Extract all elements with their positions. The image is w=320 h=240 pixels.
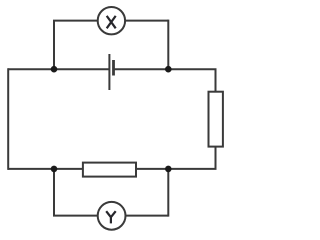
wire	[167, 169, 169, 217]
wire	[8, 68, 109, 70]
wire	[7, 68, 9, 170]
wire	[114, 69, 216, 91]
wire	[167, 20, 169, 70]
cell (battery)	[109, 54, 113, 90]
wire	[126, 215, 169, 217]
wire	[53, 21, 55, 70]
junction dot	[165, 166, 172, 173]
wire	[53, 169, 55, 216]
wire	[137, 147, 216, 169]
junction dot	[51, 66, 58, 73]
wire	[53, 20, 98, 22]
wire	[8, 168, 83, 170]
wire	[125, 20, 168, 22]
meter Y	[98, 202, 126, 230]
resistor (right vertical)	[209, 92, 223, 147]
junction dot	[51, 166, 58, 173]
wire	[53, 215, 98, 217]
resistor (bottom horizontal)	[83, 163, 136, 177]
meter X	[98, 7, 125, 34]
junction dot	[165, 66, 172, 73]
